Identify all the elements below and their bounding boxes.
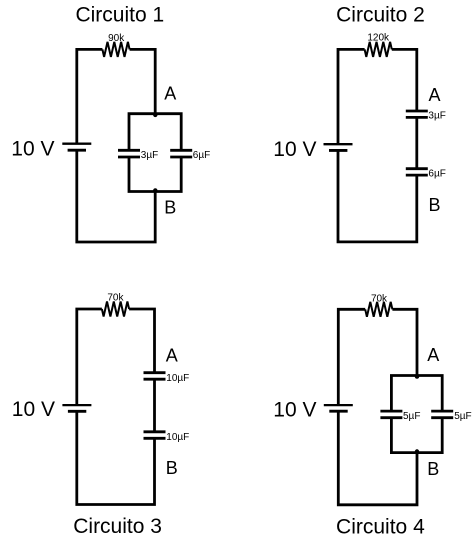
- svg-text:B: B: [166, 458, 178, 478]
- svg-text:Circuito 4: Circuito 4: [336, 516, 425, 539]
- capacitor C6: [144, 432, 166, 439]
- wire top-right segment + right branch down to C5: [129, 309, 154, 373]
- battery V1 short plate: [68, 149, 86, 152]
- capacitor C8: [431, 411, 453, 418]
- capacitor C5: [144, 373, 166, 380]
- svg-text:10 V: 10 V: [12, 398, 55, 421]
- battery V4 short plate: [329, 410, 347, 413]
- wire top-right segment + right branch down to node A: [130, 49, 156, 113]
- node B: [415, 449, 419, 453]
- svg-text:70k: 70k: [371, 293, 388, 304]
- svg-text:70k: 70k: [107, 292, 124, 303]
- wire bottom U: [77, 411, 155, 504]
- capacitor C7: [380, 411, 402, 418]
- svg-text:Circuito 3: Circuito 3: [73, 515, 162, 538]
- wire bottom U: [338, 150, 417, 242]
- svg-text:10µF: 10µF: [166, 432, 189, 443]
- battery V3 short plate: [68, 410, 86, 413]
- wire bottom U (battery to B): [77, 150, 155, 242]
- wire between capacitors: [415, 117, 418, 168]
- svg-text:120k: 120k: [367, 33, 390, 44]
- wire parallel box bottom: [391, 418, 442, 453]
- svg-text:B: B: [428, 195, 440, 215]
- battery V2 short plate: [329, 149, 347, 152]
- resistor R1: [102, 42, 129, 57]
- resistor R4: [365, 302, 392, 317]
- wire parallel box top (A to capacitor tops): [129, 114, 181, 151]
- wire top-right segment + right branch down to C3: [392, 49, 417, 111]
- svg-text:Circuito 2: Circuito 2: [336, 3, 425, 26]
- battery V4 long plate: [324, 404, 353, 406]
- svg-text:10 V: 10 V: [273, 138, 316, 161]
- node A: [415, 374, 419, 378]
- wire left branch + top-left segment: [338, 49, 365, 143]
- svg-text:A: A: [427, 345, 439, 365]
- svg-text:B: B: [164, 197, 176, 217]
- svg-text:3µF: 3µF: [141, 150, 158, 161]
- capacitor C1: [118, 150, 140, 157]
- svg-text:Circuito 1: Circuito 1: [75, 3, 164, 26]
- battery V3 long plate: [62, 404, 91, 406]
- capacitor C4: [406, 169, 428, 175]
- svg-text:10µF: 10µF: [166, 373, 189, 384]
- wire between capacitors: [153, 379, 156, 432]
- svg-text:10 V: 10 V: [273, 398, 316, 421]
- wire top-right segment + right branch down to node A: [392, 309, 417, 375]
- wire parallel box bottom (capacitor bottoms to B): [129, 157, 181, 192]
- svg-text:90k: 90k: [108, 33, 125, 44]
- svg-text:A: A: [166, 346, 178, 366]
- wire left branch + top-left segment: [77, 309, 102, 404]
- svg-text:A: A: [164, 84, 176, 104]
- svg-text:6µF: 6µF: [428, 168, 445, 179]
- battery V1 long plate: [62, 143, 91, 145]
- svg-text:6µF: 6µF: [193, 150, 210, 161]
- capacitor C3: [406, 111, 428, 117]
- battery V2 long plate: [324, 143, 353, 145]
- resistor R2: [365, 42, 392, 57]
- svg-text:B: B: [427, 459, 439, 479]
- capacitor C2: [170, 150, 192, 157]
- wire left branch + top-left segment: [338, 309, 365, 404]
- svg-text:5µF: 5µF: [454, 411, 471, 422]
- svg-text:10 V: 10 V: [11, 137, 54, 160]
- node B: [153, 188, 157, 192]
- resistor R3: [102, 302, 129, 317]
- wire left branch + top-left segment (battery to resistor): [77, 49, 103, 142]
- wire bottom U: [338, 411, 417, 505]
- wire parallel box top: [391, 376, 442, 412]
- node A: [153, 113, 157, 117]
- svg-text:A: A: [428, 85, 440, 105]
- svg-text:5µF: 5µF: [403, 411, 420, 422]
- svg-text:3µF: 3µF: [428, 111, 445, 122]
